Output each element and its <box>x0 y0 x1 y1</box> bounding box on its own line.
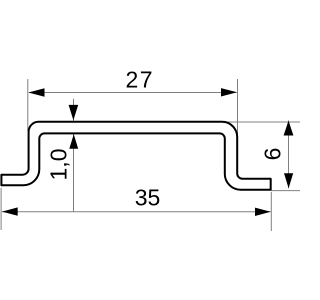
dimension line 6 <box>288 121 290 189</box>
svg-text:27: 27 <box>126 67 155 93</box>
svg-text:6: 6 <box>260 148 286 161</box>
leader line of thickness dim 1,0 <box>73 99 75 212</box>
arrowhead dim 6 down <box>284 173 293 188</box>
arrowhead dim 35 left <box>2 207 18 215</box>
arrowhead dim 27 left <box>28 88 44 97</box>
svg-text:35: 35 <box>135 185 161 211</box>
extension line top of dim 6 <box>224 121 300 123</box>
extension line bottom of dim 6 <box>271 190 300 192</box>
arrowhead dim 35 right <box>255 208 271 216</box>
extension line left of dim 35 <box>0 188 2 230</box>
arrowhead thickness up <box>69 134 78 149</box>
arrowhead dim 27 right <box>221 88 237 96</box>
rail profile outline <box>1 122 270 190</box>
dimension line 27 <box>29 92 237 94</box>
extension line left of dim 27 <box>27 79 29 131</box>
arrowhead dim 6 up <box>284 121 294 136</box>
dimension line 35 <box>2 211 271 213</box>
extension line right of dim 27 <box>237 79 239 189</box>
extension line right of dim 35 <box>270 192 272 231</box>
arrowhead thickness down <box>69 105 79 120</box>
svg-text:1,0: 1,0 <box>46 149 72 181</box>
